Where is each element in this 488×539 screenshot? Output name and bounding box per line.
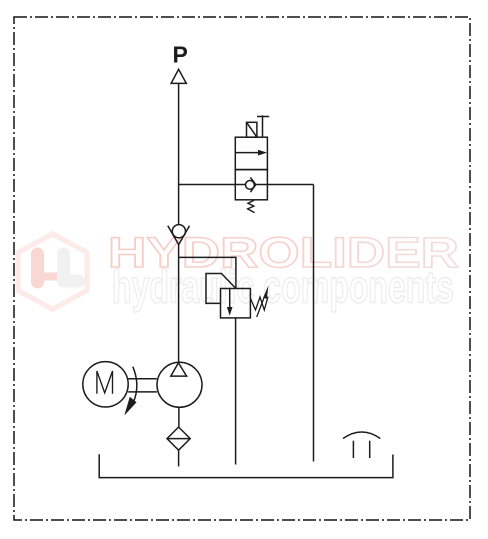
svg-text:hydraulic components: hydraulic components bbox=[112, 262, 454, 313]
svg-text:P: P bbox=[173, 42, 188, 68]
